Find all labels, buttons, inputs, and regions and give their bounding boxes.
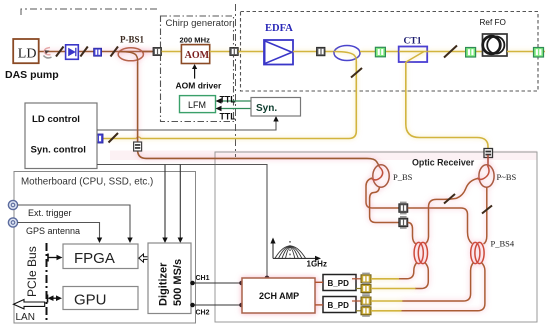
connector on optic receiver top: [484, 149, 493, 158]
P_BS output 1 (to connector 403,208): [366, 178, 399, 208]
wire circulator to CT1 (yellow): [360, 51, 399, 53]
AOM box: [181, 45, 209, 64]
optic receiver box: [215, 152, 537, 322]
svg-text:FPGA: FPGA: [74, 250, 115, 267]
CH1 wire: [191, 282, 242, 284]
blue connector: [94, 48, 102, 56]
amp to B_PD1 link: [315, 281, 323, 283]
svg-text:LAN: LAN: [16, 312, 35, 323]
wire LD to chirp box (brown): [39, 51, 152, 53]
connector mid 1: [399, 202, 408, 215]
green connector: [466, 48, 476, 58]
svg-text:GPU: GPU: [74, 292, 107, 309]
wire EDFA to circulator (yellow): [293, 51, 334, 53]
outer dash-dot frame top segment: [21, 4, 236, 157]
wire conn-mid2 to left coupler (brown): [408, 223, 416, 245]
svg-text:2CH AMP: 2CH AMP: [259, 291, 299, 301]
chirp generator dash-dot box: [161, 16, 234, 122]
coupler left (pair ellipses): [414, 242, 427, 263]
gray control wire to digitizer and amp: [97, 165, 267, 277]
connector mid 2: [399, 216, 408, 229]
GPS wire to FPGA: [18, 223, 100, 240]
B_PD2 fiber ticks: [352, 300, 361, 302]
svg-text:P~BS: P~BS: [497, 172, 517, 182]
PCIe to GPU double arrow: [51, 297, 59, 299]
svg-text:LD control: LD control: [32, 114, 80, 125]
fiber slash near LD control: [109, 133, 119, 143]
green connector: [375, 47, 385, 57]
svg-text:AOM driver: AOM driver: [176, 81, 223, 91]
coupler-right output to B_PD2 top: [402, 263, 473, 302]
Ext. trigger connector icon: [8, 200, 17, 209]
P_BS splitter (left): [372, 165, 413, 187]
svg-text:1GHz: 1GHz: [307, 260, 327, 269]
svg-text:B_PD: B_PD: [328, 279, 350, 288]
isolator: [66, 45, 79, 60]
svg-text:200 MHz: 200 MHz: [180, 36, 211, 45]
digitizer trigger line 1 (arrow down): [164, 165, 166, 240]
motherboard box: [14, 172, 196, 324]
wire P-BS1 to chirp connector (brown): [142, 51, 157, 53]
CH2 wire: [191, 304, 242, 306]
AOM driver arrow: [194, 68, 196, 79]
slash on vertical: [482, 206, 492, 214]
PCIe to FPGA arrow: [48, 257, 59, 259]
PCIe Bus dash-dot line: [46, 243, 48, 323]
wire AOM to right connector (yellow): [210, 51, 240, 53]
LD box: [13, 39, 39, 63]
svg-text:EDFA: EDFA: [265, 23, 293, 34]
B_PD connectors (gold): [361, 273, 371, 285]
svg-text:Optic Receiver: Optic Receiver: [412, 158, 475, 168]
green connector at bench edge: [534, 48, 544, 58]
fiber slash on branch: [351, 68, 362, 78]
svg-text:PCIe Bus: PCIe Bus: [25, 246, 39, 297]
B_PD 1 box: [323, 275, 356, 291]
LFM box: [180, 96, 216, 113]
connector on LO vertical: [134, 142, 142, 151]
fiber slash: [56, 47, 64, 57]
Ref FO fiber spool: [483, 34, 508, 56]
slash on that line: [444, 194, 455, 204]
wire to EDFA (yellow): [238, 51, 264, 53]
svg-text:B_PD: B_PD: [328, 301, 350, 310]
connector at chirp box right: [230, 48, 239, 56]
CT1 down branch (yellow) to optic receiver: [406, 62, 488, 150]
svg-text:P_BS4: P_BS4: [491, 239, 515, 249]
FPGA box: [63, 244, 138, 269]
Ext. trigger wire to FPGA: [18, 205, 130, 240]
LAN hollow arrow: [14, 300, 45, 309]
coupler-right output to B_PD2 bottom: [401, 263, 485, 311]
wire Syn.control to Syn (gray, arrow up): [97, 120, 276, 131]
blue connector at LD control edge: [94, 134, 104, 143]
LD control box: [25, 103, 97, 169]
EDFA amplifier: [264, 40, 293, 65]
svg-text:Digitizer: Digitizer: [158, 262, 170, 306]
FPGA-digitizer hollow arrow: [139, 254, 148, 262]
svg-text:TTL: TTL: [220, 112, 237, 122]
coupler-left output to B_PD1 bottom: [415, 263, 428, 289]
svg-text:AOM: AOM: [185, 50, 210, 61]
gray connector: [317, 47, 326, 56]
svg-text:Syn. control: Syn. control: [31, 145, 86, 156]
svg-text:CH2: CH2: [196, 310, 210, 317]
2CH AMP box: [242, 278, 315, 313]
LO path: P-BS1 down to optic receiver P_BS (brown): [138, 62, 380, 167]
svg-text:500 MS/s: 500 MS/s: [172, 259, 184, 306]
TTL line 1 (green, arrow left): [219, 100, 251, 102]
svg-text:P_BS: P_BS: [393, 172, 413, 182]
svg-text:Chirp generator: Chirp generator: [166, 18, 233, 29]
svg-text:CT1: CT1: [404, 37, 422, 47]
svg-text:LD: LD: [18, 47, 37, 62]
circulator: [334, 46, 360, 62]
B_PD 2 box: [323, 297, 356, 313]
svg-text:DAS pump: DAS pump: [5, 69, 59, 81]
svg-text:GPS antenna: GPS antenna: [26, 226, 80, 236]
fiber slash: [80, 47, 87, 57]
coupler right (pair ellipses): [471, 242, 484, 263]
spectrum sketch: [270, 238, 321, 262]
junction dot at amp: [265, 276, 270, 281]
GPS antenna connector icon: [8, 218, 17, 227]
wire conn-mid1 to right coupler (brown): [408, 208, 472, 244]
amp to B_PD2 link: [315, 304, 323, 306]
B_PD1 fiber ticks: [352, 278, 361, 280]
optical bench dashed box: [241, 12, 539, 92]
svg-text:LFM: LFM: [188, 100, 206, 110]
coupler-left output to B_PD1 top (brown then yellow): [399, 263, 417, 279]
fiber slash: [444, 46, 457, 58]
wire connector to AOM (yellow): [162, 51, 182, 53]
circulator down branch (yellow) to LD control: [103, 61, 356, 139]
P_BS output 2 (to connector 403,222): [370, 187, 399, 223]
soft halo band along LO line: [110, 151, 537, 161]
svg-text:Syn.: Syn.: [256, 103, 277, 114]
CT1 tap coupler: [399, 47, 428, 63]
wire RefFO to edge connector (yellow): [507, 51, 545, 53]
digitizer trigger line 2 (arrow down): [179, 165, 181, 240]
P~BS splitter (right): [477, 155, 516, 187]
GPU box: [63, 287, 138, 310]
connector at chirp box left: [153, 48, 162, 56]
svg-text:Motherboard (CPU, SSD, etc.): Motherboard (CPU, SSD, etc.): [21, 177, 153, 188]
P~BS output down (to right coupler): [484, 187, 487, 244]
svg-text:CH1: CH1: [196, 275, 210, 282]
svg-text:Ref FO: Ref FO: [480, 18, 506, 27]
fiber slash: [111, 47, 119, 57]
svg-text:P-BS1: P-BS1: [120, 35, 145, 45]
svg-text:Ext. trigger: Ext. trigger: [28, 208, 72, 218]
TTL line 2 (green, arrow left): [219, 108, 251, 110]
polarization controller curl: [44, 48, 50, 55]
Syn box: [251, 98, 301, 117]
wire CT1 to RefFO (yellow): [427, 51, 482, 53]
P-BS1 coupler: [118, 48, 143, 62]
Digitizer box: [148, 243, 191, 314]
svg-text:TTL: TTL: [220, 95, 237, 105]
P~BS output left (to left coupler): [425, 179, 478, 245]
